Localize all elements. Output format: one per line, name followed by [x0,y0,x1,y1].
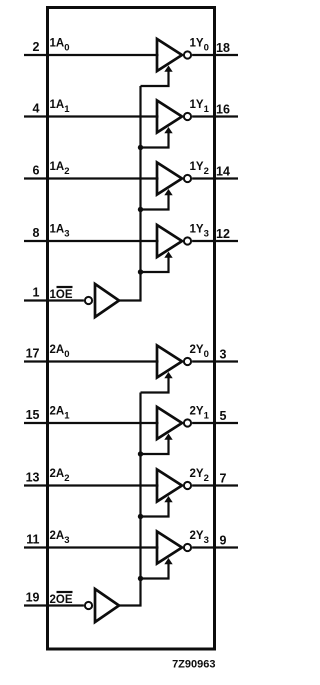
wire input 1A0 (pin 2) [24,54,159,56]
svg-text:1A2: 1A2 [50,161,70,177]
enable bubble (input) [85,602,92,609]
svg-text:3: 3 [220,347,227,361]
inverting bubble [184,51,191,58]
inverting bubble [184,237,191,244]
junction dot [138,269,143,274]
inverting bubble [184,544,191,551]
svg-text:1A1: 1A1 [50,99,71,115]
buffer triangle 1A1->1Y1 [157,101,182,133]
buffer triangle 1A0->1Y0 [157,39,182,71]
wire output 1Y1 (pin 16) [192,115,238,117]
enable arrowhead [164,434,172,440]
buffer triangle 1A2->1Y2 [157,163,182,195]
svg-text:19: 19 [26,590,40,604]
inverting bubble [184,358,191,365]
svg-text:2: 2 [33,40,40,54]
svg-text:11: 11 [26,532,39,546]
svg-text:1A0: 1A0 [50,38,70,54]
enable branch wire for 2A2 buffer [141,501,169,517]
inverting bubble [184,175,191,182]
junction dot [138,451,143,456]
svg-text:18: 18 [216,41,230,55]
overline over OE [57,591,73,593]
svg-text:1: 1 [33,285,40,299]
svg-text:2A2: 2A2 [50,468,70,484]
inverting bubble [184,419,191,426]
svg-text:2Y3: 2Y3 [190,530,209,546]
junction dot [138,207,143,212]
OE inverter triangle U1 [95,284,119,317]
IC outline box [48,8,215,650]
wire input 1A1 (pin 4) [24,115,159,117]
wire output 2Y2 (pin 7) [192,484,238,486]
enable trunk wire group 1 [139,86,141,302]
wire output 1Y2 (pin 14) [192,177,238,179]
wire input 2A2 (pin 13) [24,484,159,486]
junction dot [138,514,143,519]
inverting bubble [184,113,191,120]
overline over OE [57,286,73,288]
svg-text:17: 17 [26,346,40,360]
enable branch wire for 1A3 buffer [141,256,169,272]
svg-text:1OE: 1OE [50,289,73,301]
buffer triangle 2A1->2Y1 [157,407,182,439]
svg-text:4: 4 [33,101,40,115]
wire input 2A3 (pin 11) [24,546,159,548]
wire output 1Y3 (pin 12) [192,240,238,242]
wire output 1Y0 (pin 18) [192,54,238,56]
enable arrowhead [164,372,172,378]
svg-text:1A3: 1A3 [50,224,70,240]
enable arrowhead [164,127,172,133]
enable arrowhead [164,66,172,72]
svg-text:2Y1: 2Y1 [190,406,210,422]
svg-text:2A1: 2A1 [50,406,71,422]
svg-text:12: 12 [216,227,230,241]
buffer triangle 2A0->2Y0 [157,346,182,378]
enable branch wire for 2A0 buffer [141,377,169,393]
svg-text:1Y1: 1Y1 [190,99,210,115]
wire output 2Y3 (pin 9) [192,546,238,548]
svg-text:6: 6 [33,163,40,177]
enable arrowhead [164,558,172,564]
enable branch wire for 2A3 buffer [141,563,169,579]
enable trunk wire group 2 [139,393,141,607]
svg-text:16: 16 [216,102,230,116]
wire output 2Y0 (pin 3) [192,360,238,362]
svg-text:13: 13 [26,470,40,484]
wire input 2OE (pin 19) [24,604,84,606]
svg-text:5: 5 [220,409,227,423]
junction dot [138,145,143,150]
enable arrowhead [164,496,172,502]
inverting bubble [184,482,191,489]
svg-text:7: 7 [220,471,227,485]
svg-text:2A0: 2A0 [50,344,70,360]
svg-text:1Y2: 1Y2 [190,161,209,177]
enable arrowhead [164,252,172,258]
svg-text:2OE: 2OE [50,594,73,606]
enable branch wire for 2A1 buffer [141,438,169,454]
svg-text:8: 8 [33,226,40,240]
wire input 2A1 (pin 15) [24,422,159,424]
svg-text:7Z90963: 7Z90963 [172,659,215,671]
enable branch wire for 1A1 buffer [141,132,169,148]
svg-text:2Y2: 2Y2 [190,468,209,484]
svg-text:1Y0: 1Y0 [190,38,209,54]
svg-text:15: 15 [26,408,40,422]
enable branch wire for 1A0 buffer [141,70,169,86]
wire input 1OE (pin 1) [24,299,84,301]
buffer triangle 2A3->2Y3 [157,532,182,564]
enable branch wire for 1A2 buffer [141,194,169,210]
buffer triangle 1A3->1Y3 [157,225,182,257]
OE inverter triangle U2 [95,589,119,622]
wire OE output to trunk [119,604,142,606]
wire input 2A0 (pin 17) [24,360,159,362]
enable bubble (input) [85,297,92,304]
wire output 2Y1 (pin 5) [192,422,238,424]
wire input 1A2 (pin 6) [24,177,159,179]
svg-text:2Y0: 2Y0 [190,344,209,360]
svg-text:9: 9 [220,533,227,547]
wire OE output to trunk [119,299,142,301]
buffer triangle 2A2->2Y2 [157,470,182,502]
junction dot [138,576,143,581]
enable arrowhead [164,189,172,195]
wire input 1A3 (pin 8) [24,240,159,242]
svg-text:2A3: 2A3 [50,530,70,546]
svg-text:1Y3: 1Y3 [190,224,209,240]
svg-text:14: 14 [216,164,230,178]
